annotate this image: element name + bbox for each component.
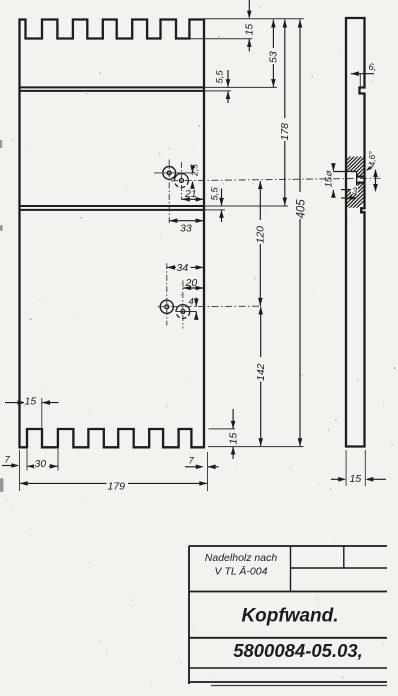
dimension 30	[27, 449, 58, 471]
svg-text:120: 120	[254, 226, 266, 244]
dimension 405	[294, 20, 308, 447]
hole C4 lower right	[176, 305, 190, 319]
dimension 179	[20, 450, 208, 493]
svg-text:178: 178	[279, 123, 291, 141]
svg-text:4,6°: 4,6°	[367, 151, 377, 167]
centerlines lower holes	[158, 263, 260, 328]
groove line pair upper	[20, 87, 205, 91]
svg-text:7: 7	[189, 456, 195, 467]
dimension 20	[183, 277, 204, 290]
dimension 178	[279, 20, 291, 206]
svg-text:15: 15	[350, 473, 362, 485]
svg-text:33: 33	[180, 223, 192, 235]
svg-text:5,5: 5,5	[210, 187, 221, 201]
dimension 53	[268, 20, 280, 88]
svg-text:7: 7	[5, 455, 11, 466]
svg-text:2,5: 2,5	[190, 164, 200, 177]
dimension 15 bottom left	[5, 396, 59, 429]
dimension 21	[181, 188, 204, 202]
svg-text:53: 53	[268, 51, 280, 63]
counterbore outline in section	[333, 172, 364, 190]
dimension 33	[169, 218, 204, 234]
dimension 4	[189, 297, 199, 321]
dimension 5,5 upper	[215, 70, 231, 103]
hole C3 lower left	[160, 300, 173, 313]
svg-text:Nadelholz nach: Nadelholz nach	[205, 552, 278, 564]
svg-text:405: 405	[296, 199, 308, 219]
svg-text:142: 142	[255, 363, 267, 381]
hole C1	[163, 167, 176, 180]
dimension 15 bottom center	[228, 409, 240, 459]
front view outline with finger joints	[20, 20, 205, 448]
dimension 15 top	[244, 0, 256, 52]
svg-text:5800084-05.03,: 5800084-05.03,	[233, 640, 363, 661]
long hole centerline to side view	[171, 178, 381, 181]
dimension 5,5 middle	[210, 187, 224, 222]
svg-text:21: 21	[184, 188, 197, 200]
dimension 2,5 hole offset	[190, 164, 200, 189]
svg-text:15: 15	[228, 433, 240, 445]
svg-text:20: 20	[185, 277, 198, 289]
dimension 34	[167, 262, 204, 274]
title block material text	[205, 552, 278, 578]
svg-text:4: 4	[189, 297, 194, 308]
svg-text:15⌀: 15⌀	[324, 170, 335, 188]
svg-text:Kopfwand.: Kopfwand.	[241, 606, 338, 627]
scan edge smudges	[0, 140, 4, 492]
svg-text:3: 3	[352, 186, 358, 197]
centerlines upper holes	[154, 160, 195, 225]
dimension 120	[254, 181, 266, 306]
hole C2	[174, 174, 188, 188]
side view outline	[346, 18, 365, 447]
dimension 3	[341, 186, 358, 201]
dimension 7 bottom left	[2, 455, 19, 468]
dimension 142	[255, 307, 267, 447]
svg-text:V TL Ā-004: V TL Ā-004	[215, 566, 268, 578]
groove line pair lower	[20, 206, 205, 210]
svg-text:179: 179	[108, 481, 126, 493]
svg-text:34: 34	[177, 262, 189, 274]
extension lines right of front view	[190, 19, 304, 447]
dimension 6	[351, 62, 377, 87]
svg-text:30: 30	[35, 458, 47, 470]
svg-text:6,: 6,	[369, 62, 377, 73]
svg-text:5,5: 5,5	[215, 70, 226, 84]
dimension 15 side bottom	[331, 450, 386, 486]
svg-text:15: 15	[244, 24, 256, 36]
dimension 4,6 deg	[365, 151, 377, 173]
section hatching	[292, 155, 398, 215]
title block frame	[189, 546, 387, 686]
dimension 15 dia	[324, 163, 336, 198]
double arrow right of section	[373, 169, 378, 192]
svg-text:15: 15	[25, 396, 37, 408]
dimension 7 bottom right	[185, 456, 219, 470]
